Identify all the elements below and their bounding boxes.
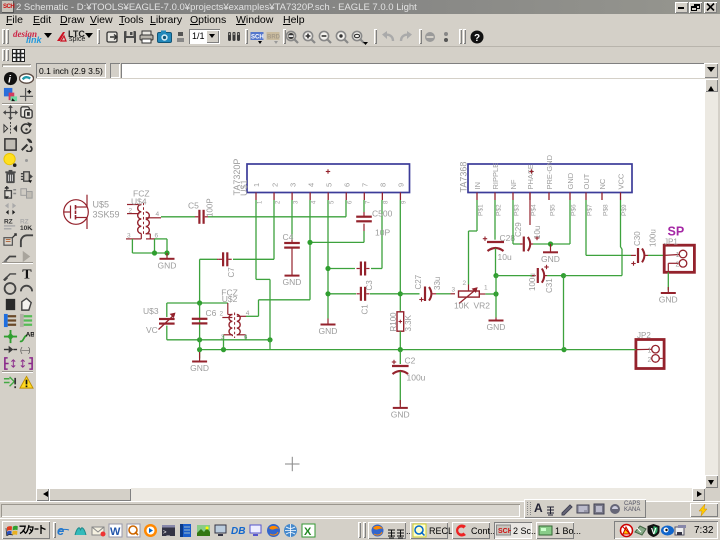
- svg-text:1: 1: [252, 183, 261, 187]
- svg-text:P$6: P$6: [570, 204, 577, 216]
- svg-text:GND: GND: [319, 326, 338, 336]
- svg-text:GND: GND: [566, 172, 575, 189]
- svg-text:U$1: U$1: [239, 179, 249, 196]
- svg-text:4: 4: [306, 183, 315, 187]
- svg-text:2: 2: [270, 183, 279, 187]
- svg-text:C6: C6: [206, 308, 217, 318]
- svg-text:100u: 100u: [649, 229, 658, 247]
- svg-text:C3: C3: [365, 280, 374, 291]
- svg-text:U$2: U$2: [222, 294, 238, 304]
- svg-text:R100: R100: [389, 312, 398, 332]
- svg-text:2: 2: [129, 208, 133, 215]
- svg-text:(—): (—): [20, 345, 31, 354]
- svg-text:U$5: U$5: [93, 200, 110, 210]
- svg-text:JP2: JP2: [637, 331, 651, 340]
- svg-text:C5: C5: [188, 201, 199, 211]
- svg-text:C1: C1: [361, 304, 370, 315]
- svg-text:100u: 100u: [528, 273, 537, 291]
- svg-text:P$1: P$1: [477, 204, 484, 216]
- svg-text:GND: GND: [659, 295, 678, 305]
- svg-text:3: 3: [127, 233, 131, 240]
- svg-text:2: 2: [648, 357, 652, 364]
- svg-text:7: 7: [366, 200, 372, 204]
- svg-text:P$5: P$5: [549, 204, 556, 216]
- svg-text:1: 1: [484, 285, 488, 292]
- svg-text:W: W: [110, 526, 121, 538]
- svg-text:C29: C29: [514, 222, 523, 237]
- svg-text:GND: GND: [158, 260, 177, 270]
- svg-text:SCH: SCH: [498, 528, 511, 535]
- svg-text:X: X: [304, 526, 312, 538]
- svg-text:6: 6: [348, 200, 354, 204]
- svg-text:2: 2: [676, 262, 680, 269]
- svg-text:7: 7: [361, 183, 370, 187]
- svg-text:RIPPLE: RIPPLE: [491, 163, 500, 190]
- svg-text:P$2: P$2: [495, 204, 502, 216]
- svg-text:P$4: P$4: [530, 204, 537, 216]
- svg-text:2: 2: [275, 200, 281, 204]
- svg-text:100P: 100P: [206, 198, 215, 217]
- svg-text:3: 3: [221, 334, 225, 341]
- svg-text:T: T: [22, 266, 32, 280]
- svg-text:V: V: [651, 527, 657, 536]
- svg-text:4: 4: [311, 200, 317, 204]
- svg-text:1: 1: [676, 252, 680, 259]
- svg-text:GND: GND: [391, 409, 410, 419]
- svg-text:U$3: U$3: [143, 306, 159, 316]
- svg-text:1: 1: [648, 347, 652, 354]
- svg-text:3: 3: [452, 287, 456, 294]
- svg-text:JP1: JP1: [664, 238, 678, 247]
- svg-text:10u: 10u: [533, 226, 542, 239]
- svg-text:5: 5: [324, 183, 333, 187]
- svg-text:VCC: VCC: [617, 173, 626, 189]
- svg-text:DB: DB: [231, 526, 245, 537]
- svg-text:GND: GND: [283, 277, 302, 287]
- svg-text:SCH: SCH: [251, 35, 264, 41]
- svg-text:GND: GND: [541, 254, 560, 264]
- svg-text:3.3K: 3.3K: [404, 314, 413, 331]
- svg-text:BRD: BRD: [267, 35, 280, 41]
- svg-text:2: 2: [463, 280, 467, 287]
- svg-text:RZ: RZ: [3, 218, 12, 225]
- svg-text:6: 6: [342, 183, 351, 187]
- svg-text:9: 9: [402, 200, 408, 204]
- svg-text:100u: 100u: [407, 373, 426, 383]
- svg-text:GND: GND: [487, 322, 506, 332]
- svg-text:10K: 10K: [454, 301, 469, 311]
- svg-text:5: 5: [330, 200, 336, 204]
- svg-text:NF: NF: [509, 179, 518, 189]
- svg-text:NC: NC: [598, 178, 607, 189]
- svg-text:PRE-GND: PRE-GND: [545, 154, 554, 189]
- svg-text:VR2: VR2: [474, 301, 491, 311]
- svg-text:1: 1: [257, 200, 263, 204]
- svg-text:C27: C27: [414, 274, 423, 289]
- svg-text:C2: C2: [405, 356, 416, 366]
- svg-text:P$8: P$8: [602, 204, 609, 216]
- svg-text:PHASE: PHASE: [526, 164, 535, 189]
- svg-text:GND: GND: [190, 363, 209, 373]
- svg-text:3: 3: [288, 183, 297, 187]
- svg-text:4: 4: [246, 310, 250, 317]
- svg-text:U$4: U$4: [131, 197, 147, 207]
- svg-text:2: 2: [220, 311, 224, 318]
- svg-text:8: 8: [379, 183, 388, 187]
- svg-text:10P: 10P: [375, 228, 390, 238]
- svg-text:3SK59: 3SK59: [93, 210, 120, 220]
- svg-text:P$7: P$7: [586, 204, 593, 216]
- svg-text:C4: C4: [283, 232, 294, 242]
- svg-text:33u: 33u: [433, 277, 442, 290]
- svg-text:?: ?: [474, 33, 480, 44]
- svg-text:8: 8: [384, 200, 390, 204]
- svg-text:10u: 10u: [498, 252, 512, 262]
- svg-text:C500: C500: [372, 209, 393, 219]
- svg-text:IN: IN: [473, 182, 482, 190]
- svg-text:C30: C30: [633, 231, 642, 246]
- svg-text:3: 3: [293, 200, 299, 204]
- svg-text:9: 9: [397, 183, 406, 187]
- svg-text:SP: SP: [668, 225, 685, 239]
- svg-text:4: 4: [156, 211, 160, 218]
- svg-text:TA7368: TA7368: [459, 162, 469, 193]
- svg-text:VC: VC: [146, 325, 158, 335]
- svg-text:P$3: P$3: [513, 204, 520, 216]
- svg-text:C31: C31: [545, 278, 554, 293]
- svg-text:P$9: P$9: [621, 204, 628, 216]
- svg-text:6: 6: [244, 334, 248, 341]
- svg-text:C7: C7: [227, 267, 236, 278]
- svg-text:AB: AB: [26, 331, 34, 338]
- svg-text:>_: >_: [163, 530, 171, 536]
- svg-text:OUT: OUT: [582, 173, 591, 189]
